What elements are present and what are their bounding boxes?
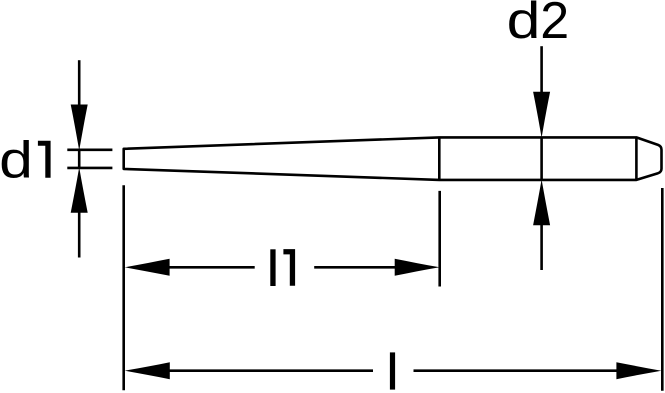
svg-text:2: 2 (540, 0, 569, 50)
svg-text:d: d (0, 132, 33, 190)
svg-text:d: d (507, 0, 541, 50)
